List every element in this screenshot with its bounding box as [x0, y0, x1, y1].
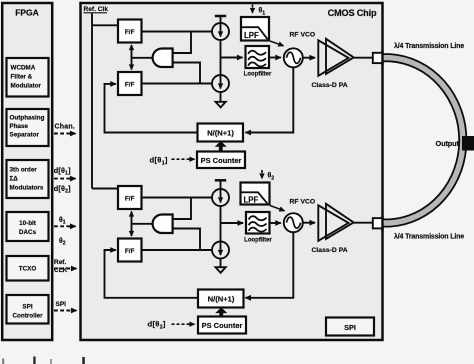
- svg-text:TCXO: TCXO: [19, 266, 37, 273]
- wire FF4 output to charge pump 2: [142, 249, 213, 251]
- port pad 2 (chip edge): [373, 216, 383, 231]
- wire loop filter 1 to VCO1: [269, 57, 281, 59]
- wire PA1 to output port: [354, 57, 372, 59]
- wire d[theta2] dashed arrow into PS Counter 2: [172, 323, 195, 325]
- wire reset line PFD2 (double arrow): [131, 212, 133, 237]
- node label lambda/4 Transmission Line (top): [394, 42, 464, 50]
- wire theta dashed arrow into chip: [54, 225, 76, 227]
- flip-flop FF2: [118, 72, 142, 95]
- counter PS Counter 1: [197, 152, 245, 169]
- divider N/(N+1) 2: [198, 290, 244, 308]
- block 3th order Sigma-Delta Modulators: [7, 160, 49, 198]
- node label theta1 at LPF1: [259, 8, 266, 17]
- svg-text:Loopfilter: Loopfilter: [244, 72, 272, 78]
- svg-text:Separator: Separator: [10, 132, 40, 139]
- wire reference clock vertical rail: [91, 14, 93, 189]
- node label theta2: [59, 238, 66, 247]
- block TCXO: [7, 256, 49, 281]
- wire LPF1 modulation path to VCO1 (diagonal): [270, 41, 284, 46]
- node Output junction: [462, 136, 474, 151]
- svg-text:LPF: LPF: [244, 31, 259, 40]
- wire charge pump 2 output to loop filter 2: [221, 222, 244, 224]
- svg-text:Class-D PA: Class-D PA: [312, 82, 348, 89]
- block SPI (chip): [326, 318, 374, 336]
- caption remnant marks (cropped text at bottom): [2, 357, 85, 364]
- AND gate U2: [153, 215, 173, 234]
- svg-text:Ref.: Ref.: [54, 259, 66, 266]
- wire Chan. dashed arrow into chip: [54, 133, 76, 135]
- current source I3 (up): [212, 189, 229, 206]
- svg-text:N/(N+1): N/(N+1): [207, 129, 234, 138]
- block arrow PS Counter 1 to divider: [216, 142, 226, 152]
- wire PA2 to output port: [354, 222, 372, 224]
- node label theta1: [59, 217, 66, 226]
- svg-text:Chan.: Chan.: [55, 124, 75, 131]
- svg-text:F/F: F/F: [125, 82, 135, 89]
- node label theta2 at LPF2: [268, 173, 275, 182]
- counter PS Counter 2: [198, 317, 246, 334]
- supply bar charge pump 1: [215, 15, 226, 18]
- FPGA block outline: [2, 3, 52, 340]
- node label d[theta2] at PS Counter 2: [148, 320, 166, 331]
- low pass filter LPF1: [241, 17, 269, 41]
- svg-text:RF VCO: RF VCO: [290, 199, 316, 206]
- block 10 bit DACs: [7, 212, 49, 241]
- wire FF2 output to charge pump: [142, 83, 213, 85]
- svg-text:3th order: 3th order: [10, 167, 38, 174]
- svg-text:WCDMA: WCDMA: [11, 65, 36, 72]
- amplifier Class-D PA 2: [312, 204, 354, 254]
- svg-text:Controller: Controller: [12, 313, 43, 320]
- svg-text:LPF: LPF: [244, 196, 259, 205]
- svg-text:λ/4 Transmission Line: λ/4 Transmission Line: [394, 233, 464, 241]
- transmission line 1 (lambda/4, top): [383, 58, 463, 223]
- wire FF4 output branch to AND2 input: [173, 229, 200, 251]
- wire AND1 output to reset line: [132, 57, 153, 59]
- svg-text:λ/4 Transmission Line: λ/4 Transmission Line: [394, 42, 464, 50]
- svg-text:SPI: SPI: [22, 304, 32, 311]
- node label d[theta2]: [54, 184, 71, 195]
- svg-text:F/F: F/F: [125, 248, 135, 255]
- node label Ref. Clk (chip internal reference): [84, 6, 109, 13]
- svg-text:Ref. Clk: Ref. Clk: [84, 6, 109, 13]
- wire FF3 output branch to AND2 input: [173, 198, 191, 220]
- AND gate U1: [153, 49, 173, 68]
- wire AND2 output to reset line: [132, 223, 153, 225]
- wire VCO1 feedback to divider N1: [246, 67, 294, 132]
- divider N/(N+1) 1: [198, 124, 244, 142]
- loop filter block 1: [244, 46, 272, 78]
- svg-text:F/F: F/F: [125, 29, 135, 36]
- amplifier Class-D PA 1: [312, 39, 354, 89]
- svg-text:d[θ2]: d[θ2]: [54, 184, 71, 195]
- wire charge pump 1 rail: [220, 16, 222, 102]
- svg-text:θ1: θ1: [59, 217, 66, 226]
- block WCDMA Filter & Modulator: [7, 58, 49, 97]
- wire Ref. CLK dashed arrow into chip: [54, 268, 77, 270]
- svg-text:Filter &: Filter &: [11, 74, 33, 81]
- svg-text:10-bit: 10-bit: [19, 220, 37, 227]
- wire ref clk branch to FF1: [92, 24, 118, 26]
- node label Chan.: [55, 124, 75, 131]
- node label Ref. CLK: [54, 259, 68, 274]
- wire theta2 dashed arrow into LPF2: [261, 170, 263, 179]
- current source I2 (down): [212, 75, 229, 92]
- node label d[theta1]: [54, 166, 71, 177]
- svg-text:SPI: SPI: [344, 323, 356, 332]
- ground symbol PFD1: [216, 102, 226, 108]
- ground symbol PFD2: [216, 267, 226, 273]
- svg-text:Loopfilter: Loopfilter: [244, 238, 272, 244]
- svg-text:d[θ1]: d[θ1]: [54, 166, 71, 177]
- supply bar charge pump 2: [215, 179, 226, 182]
- flip-flop FF3: [118, 186, 142, 209]
- wire theta1 dashed arrow into LPF1: [252, 5, 254, 14]
- svg-text:Output: Output: [436, 139, 460, 148]
- wire divider N1 output to FF2 clock: [105, 84, 198, 133]
- svg-text:FPGA: FPGA: [15, 8, 39, 18]
- wire FF2 output branch to AND1 input: [173, 63, 200, 84]
- svg-text:SPI: SPI: [56, 301, 67, 308]
- svg-text:PS Counter: PS Counter: [202, 321, 243, 330]
- svg-text:F/F: F/F: [125, 196, 135, 203]
- port pad 1 (chip edge): [373, 51, 383, 66]
- wire FF1 output branch to AND1 input: [173, 32, 191, 54]
- wire charge pump 2 rail: [220, 180, 222, 267]
- svg-text:Outphasing: Outphasing: [10, 115, 45, 122]
- svg-text:PS Counter: PS Counter: [201, 156, 242, 165]
- loop filter block 2: [244, 212, 272, 244]
- svg-text:RF VCO: RF VCO: [290, 32, 316, 39]
- svg-text:DACs: DACs: [19, 229, 37, 236]
- block Outphasing Phase Separator: [7, 109, 49, 146]
- current source I4 (down): [212, 242, 229, 259]
- svg-text:θ2: θ2: [59, 238, 66, 247]
- block arrow PS Counter 2 to divider 2: [216, 308, 226, 317]
- wire d[theta] dashed arrow into chip: [54, 178, 76, 180]
- svg-text:ΣΔ: ΣΔ: [10, 176, 19, 183]
- node label Output: [436, 139, 460, 148]
- wire SPI dashed arrow into chip: [54, 310, 77, 312]
- wire VCO2 to PA2: [303, 222, 315, 224]
- block SPI Controller: [7, 295, 49, 324]
- wire VCO1 to PA1: [303, 57, 315, 59]
- CMOS chip outline: [81, 3, 383, 340]
- flip-flop FF4: [118, 239, 142, 262]
- node label lambda/4 Transmission Line (bottom): [394, 233, 464, 241]
- flip-flop FF1: [118, 20, 142, 43]
- wire VCO2 feedback to divider N2: [246, 232, 294, 298]
- wire FF1 output to charge pump: [142, 31, 213, 33]
- wire d[theta1] dashed arrow into PS Counter 1: [172, 158, 195, 160]
- wire reset line PFD1 (double arrow): [131, 45, 133, 70]
- oscillator RF VCO 1: [284, 32, 315, 68]
- svg-text:Modulator: Modulator: [11, 83, 42, 90]
- wire ref clk branch to FF3: [92, 188, 118, 190]
- svg-text:Modulators: Modulators: [10, 185, 44, 192]
- current source I1 (up): [212, 23, 229, 40]
- oscillator RF VCO 2: [284, 199, 315, 233]
- svg-text:Phase: Phase: [10, 123, 29, 130]
- wire divider N2 output to FF4 clock: [105, 250, 199, 298]
- node label SPI: [56, 301, 67, 308]
- svg-text:CMOS Chip: CMOS Chip: [328, 8, 377, 18]
- wire LPF2 modulation path to VCO2 (diagonal): [270, 206, 285, 211]
- svg-text:N/(N+1): N/(N+1): [208, 295, 235, 304]
- wire charge pump 1 output to loop filter: [221, 57, 243, 59]
- svg-text:Class-D PA: Class-D PA: [312, 247, 348, 254]
- node label d[theta1] at PS Counter 1: [150, 155, 168, 166]
- low pass filter LPF2: [241, 183, 270, 205]
- wire loop filter 2 to VCO2: [270, 222, 281, 224]
- wire FF3 output to charge pump 2: [142, 197, 213, 199]
